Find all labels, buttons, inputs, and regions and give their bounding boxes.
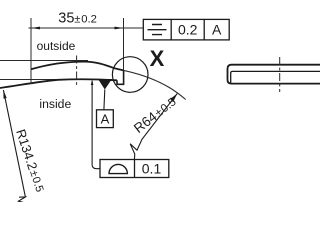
wire: left extension line of 35 dimension [30, 18, 32, 84]
wire: dashed centre line through blade [76, 56, 78, 88]
svg-text:outside: outside [37, 39, 76, 53]
svg-text:inside: inside [39, 97, 71, 111]
svg-text:A: A [101, 112, 110, 127]
wire: leader from datum triangle to A box [103, 90, 106, 110]
wire: R64 leader with zigzag from FCF2 top [130, 94, 177, 160]
node side-view bar inner edge [231, 71, 320, 83]
node datum box A [97, 110, 114, 128]
node outside-surface: blade top contour [31, 62, 124, 71]
pin arrow-left of 35 dimension [31, 27, 40, 30]
wire: thin flat reference line bottom (flattened state) [0, 78, 112, 80]
wire: right extension line of 35 dimension [123, 18, 125, 70]
op-amp FCF2: profile 0.1 frame [100, 160, 169, 178]
node inside-surface: blade bottom contour [0, 79, 117, 88]
pin arrow-right of 35 dimension [115, 27, 124, 30]
wire: thin flat reference line top (flattened state) [0, 60, 88, 62]
node side-view bar outline [228, 65, 320, 84]
wire: leader stem down to profile FCF [92, 81, 100, 169]
svg-text:A: A [212, 22, 222, 38]
node tip-end-face [117, 70, 124, 84]
wire: R134.2 leader line [3, 90, 25, 197]
svg-text:0.2: 0.2 [178, 22, 198, 38]
node detail circle X [112, 57, 148, 93]
node profile-of-surface symbol [109, 164, 127, 173]
svg-text:35: 35 [58, 11, 74, 27]
wire: 35 dimension line [29, 27, 144, 29]
value label R134.2 ±0.5 (rotated) [13, 127, 47, 194]
wire: R64 arc extension beyond tip [124, 70, 186, 99]
wire: zigzag at bottom of R134.2 leader [18, 197, 25, 202]
transistor datum-triangle A on bottom surface [98, 80, 111, 90]
svg-text:± 0.2: ± 0.2 [74, 14, 97, 26]
pin arrowhead of R64 leader [170, 94, 177, 102]
svg-text:X: X [150, 46, 165, 71]
op-amp FCF1: symmetry 0.2 A frame [143, 19, 229, 40]
wire: dashed centre line of side view [279, 57, 281, 92]
svg-text:0.1: 0.1 [142, 160, 162, 176]
pin arrowhead of R134.2 leader [3, 90, 6, 99]
pin leader-arrow of profile FCF [91, 79, 94, 85]
node symmetry-symbol [148, 25, 167, 35]
value label R64 ±0.5 (rotated) [131, 94, 179, 136]
